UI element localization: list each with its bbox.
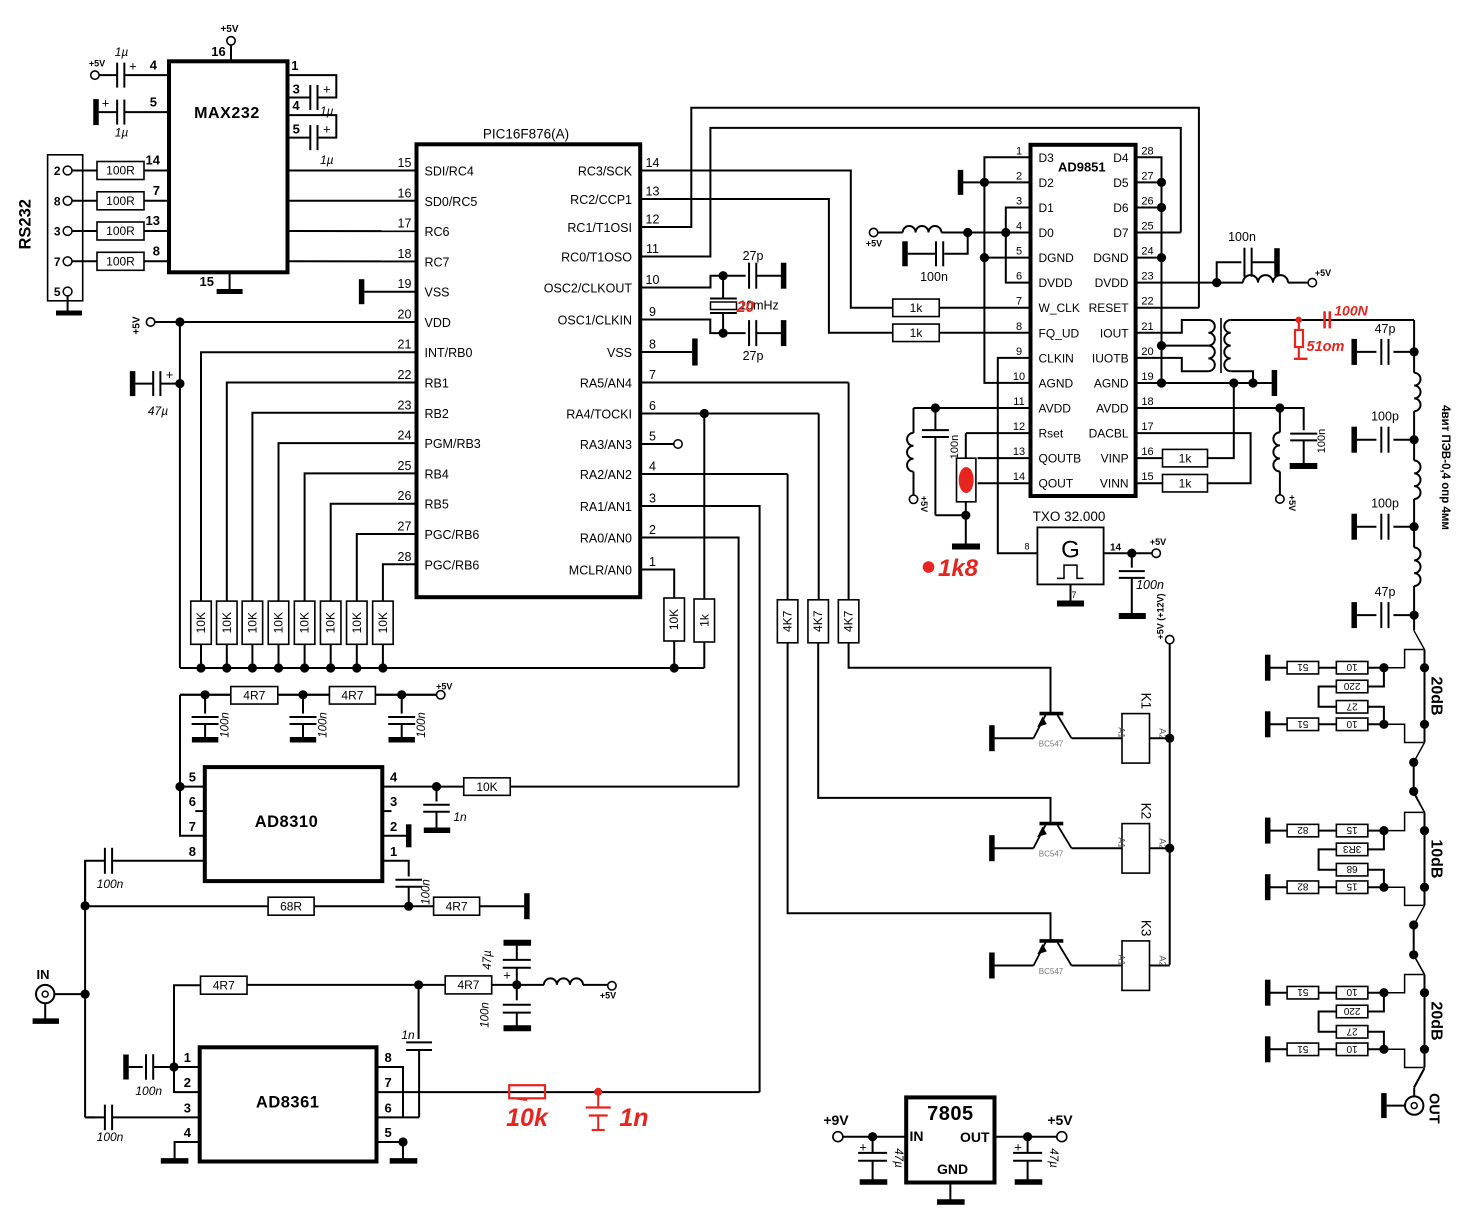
ground (AD8361 pin5): [402, 1142, 404, 1160]
node MCLR-bus junction: [670, 663, 679, 672]
svg-text:K1: K1: [1139, 693, 1154, 710]
IC AD8310 U6: [205, 767, 382, 881]
pin QOUT stub: [978, 482, 1031, 484]
attenuator 20dB input ground: [1265, 655, 1271, 681]
svg-text:26: 26: [398, 489, 412, 503]
wire PIC RC1/T1OSI to AD9851 RESET (top bus): [640, 108, 1199, 308]
attenuator 20dB series resistor 51 top: [1268, 667, 1287, 669]
svg-text:BC547: BC547: [1039, 740, 1064, 749]
wire PIC RA1/AN1 down to AD8361 out: [640, 506, 759, 1092]
resistor R22 4R7: [231, 687, 278, 705]
resistor R3 100R: [97, 222, 144, 240]
red annotation capacitor 1n: [597, 1092, 599, 1107]
capacitor C18 100n (supply): [302, 695, 304, 714]
node D0 filter junction: [963, 228, 972, 237]
svg-text:7: 7: [153, 183, 160, 198]
node attenuator 10dB top junction: [1379, 826, 1388, 835]
attenuator 20dB bypass bracket bottom: [1384, 1049, 1424, 1067]
capacitor C27 100n (pin3 input): [85, 1116, 95, 1118]
svg-text:51: 51: [1297, 661, 1309, 672]
capacitor C15 100p (LPF): [1393, 526, 1414, 528]
svg-text:1k8: 1k8: [938, 555, 979, 582]
svg-text:DACBL: DACBL: [1089, 427, 1129, 441]
svg-text:220: 220: [1343, 1005, 1360, 1016]
wire AVDD pin11: [914, 407, 1031, 409]
svg-text:RA5/AN4: RA5/AN4: [580, 377, 632, 391]
svg-text:DVDD: DVDD: [1039, 276, 1073, 290]
node AVDD junction: [931, 403, 940, 412]
svg-text:22: 22: [398, 368, 412, 382]
attenuator 20dB main line: [1424, 650, 1426, 743]
svg-text:4K7: 4K7: [781, 610, 795, 632]
svg-text:220: 220: [1343, 680, 1360, 691]
node DVDD junction: [1212, 278, 1221, 287]
resistor R28 4R7 (output filter): [445, 976, 492, 994]
capacitor C2 1u (MAX232 pin 5): [93, 99, 99, 125]
node 20dB line top: [1420, 663, 1429, 672]
svg-text:100n: 100n: [97, 877, 124, 891]
node IN junction: [81, 990, 90, 999]
wire resistor R4 to MAX232: [144, 260, 169, 262]
capacitor C26 100n (pin1): [123, 1055, 129, 1080]
node bus junction 2: [222, 663, 231, 672]
IC MAX232 U2: [169, 61, 288, 272]
svg-text:100n: 100n: [97, 1130, 124, 1144]
node D0 junction on bracket: [1001, 228, 1010, 237]
node supply row junction 1: [201, 690, 210, 699]
wire 4R7 to node: [247, 984, 421, 986]
resistor R27 4R7 (AD8361 supply): [201, 976, 248, 994]
attenuator 10dB bypass bracket bottom: [1384, 887, 1424, 905]
wire PIC RA2/AN2 to 4K7 (K3): [640, 473, 787, 475]
capacitor C4 1u (MAX232 pins 4-5): [288, 115, 337, 138]
svg-text:7: 7: [189, 819, 196, 834]
svg-text:FQ_UD: FQ_UD: [1039, 326, 1080, 340]
capacitor C13 47p (LPF): [1393, 351, 1414, 353]
svg-text:AD8361: AD8361: [256, 1093, 320, 1111]
attenuator 20dB main line: [1424, 975, 1426, 1068]
wire PIC RA5/AN4 to 4K7 (K1): [640, 382, 848, 384]
switch contact 20dB bottom: [1414, 1068, 1425, 1088]
svg-text:+: +: [166, 367, 174, 382]
node D6 junction: [1157, 203, 1166, 212]
svg-text:10: 10: [1013, 371, 1025, 383]
wire +5V to coil: [878, 232, 903, 234]
ground (RS232 pin 5): [67, 296, 69, 313]
ground (Q3 emitter): [989, 953, 995, 979]
inductor L2 (AVDD feed): [913, 408, 915, 433]
resistor R25 68R: [268, 897, 314, 915]
svg-text:8: 8: [189, 844, 196, 859]
node 20dB line bottom: [1420, 1045, 1429, 1054]
svg-text:7: 7: [649, 368, 656, 382]
svg-text:27: 27: [1141, 170, 1153, 182]
svg-text:IN: IN: [37, 967, 50, 982]
wire coil to D0: [941, 232, 1030, 234]
svg-text:27p: 27p: [743, 349, 764, 363]
svg-text:15: 15: [1346, 881, 1358, 892]
svg-text:10dB: 10dB: [1428, 839, 1445, 878]
attenuator 20dB shunt resistor 27: [1336, 1026, 1368, 1039]
attenuator 20dB series resistor 51 top: [1268, 992, 1287, 994]
svg-text:D1: D1: [1039, 201, 1055, 215]
svg-text:2: 2: [54, 164, 61, 178]
svg-text:4R7: 4R7: [446, 899, 468, 913]
svg-text:25: 25: [1141, 221, 1153, 233]
wire 10K to bus: [673, 641, 675, 668]
wire PIC pin 27 to pullup column 7: [357, 534, 417, 601]
svg-text:A1: A1: [1116, 837, 1126, 848]
power +5V terminal (DVDD): [1308, 278, 1316, 286]
svg-text:+: +: [503, 968, 511, 983]
capacitor C20 1n: [436, 787, 438, 802]
resistor R15 1k (W_CLK): [893, 299, 940, 317]
attenuator 10dB series resistor 15 bottom: [1319, 886, 1337, 888]
node DGND24 junction: [1157, 253, 1166, 262]
svg-text:4: 4: [649, 460, 656, 474]
wire TXO out to +5V: [1104, 552, 1152, 554]
svg-text:15: 15: [200, 274, 214, 289]
svg-text:AGND: AGND: [1094, 376, 1129, 390]
svg-text:8: 8: [649, 338, 656, 352]
svg-text:15: 15: [398, 156, 412, 170]
node pin5 junction: [377, 1141, 404, 1143]
wire MAX232 to PIC RC6: [288, 230, 417, 232]
wire LPF spine top: [1413, 320, 1415, 352]
svg-text:3: 3: [390, 794, 397, 809]
svg-text:16: 16: [1141, 446, 1153, 458]
wire PIC RC3/SCK to 1k W_CLK: [640, 171, 893, 308]
node D2 junction: [980, 178, 989, 187]
node crystal top junction: [719, 271, 728, 280]
svg-text:1k: 1k: [1179, 451, 1193, 465]
resistor R23 4R7: [329, 687, 375, 705]
node bus junction 5: [300, 663, 309, 672]
attenuator 10dB input ground: [1265, 818, 1271, 844]
capacitor C14 100p (LPF): [1393, 439, 1414, 441]
attenuator 10dB bypass bracket top: [1384, 812, 1424, 830]
node 10dB line bottom: [1420, 883, 1429, 892]
svg-text:4: 4: [150, 58, 158, 73]
svg-text:100n: 100n: [949, 435, 961, 459]
wire pin16 +5V to MAX232: [230, 45, 232, 61]
svg-text:+5V: +5V: [866, 239, 882, 249]
capacitor C16 47p (LPF): [1393, 614, 1414, 616]
svg-text:5: 5: [54, 285, 61, 299]
wire PIC pin 26 to pullup column 6: [331, 504, 417, 601]
switch to OUT link: [1414, 1069, 1424, 1088]
wire 4R7 to supply node: [492, 984, 517, 986]
wire coil to +5V: [1288, 282, 1308, 284]
wire AD8361 pin7 output: [377, 1091, 760, 1093]
capacitor C17 100n (supply): [204, 695, 206, 714]
wire +9V to 7805 IN: [843, 1136, 906, 1138]
wire AD8310 pin4 output: [382, 786, 464, 788]
ground (MAX232 pin 15): [229, 272, 231, 290]
svg-text:10: 10: [1346, 718, 1358, 729]
svg-text:OUT: OUT: [1426, 1093, 1442, 1124]
svg-text:RA2/AN2: RA2/AN2: [580, 468, 632, 482]
svg-text:QOUT: QOUT: [1039, 477, 1074, 491]
wire PIC OSC2 to crystal: [640, 276, 723, 288]
svg-text:3: 3: [1016, 195, 1022, 207]
svg-text:3: 3: [293, 82, 300, 97]
node 47u junction: [175, 379, 184, 388]
svg-text:10K: 10K: [376, 612, 390, 633]
svg-text:+5V: +5V: [1150, 537, 1166, 547]
IC 7805 U8: [906, 1097, 994, 1182]
ground (AD8361 pin4): [175, 1142, 200, 1160]
wire D2 to ground bar: [963, 181, 1031, 183]
svg-text:AD9851: AD9851: [1058, 160, 1106, 175]
svg-text:RB1: RB1: [425, 377, 449, 391]
attenuator 10dB output ground: [1265, 874, 1271, 900]
attenuator 10dB series resistor 15 top: [1319, 830, 1337, 832]
svg-text:IOUT: IOUT: [1100, 326, 1129, 340]
svg-text:+9V: +9V: [823, 1112, 849, 1128]
svg-text:6: 6: [189, 794, 196, 809]
resistor R18 1k (VINN): [1136, 482, 1163, 484]
resistor R7 10K pullup: [242, 601, 263, 644]
transformer TR1 secondary: [1224, 320, 1230, 371]
IC PIC16F876(A) U3: [417, 144, 641, 597]
svg-text:1: 1: [1016, 145, 1022, 157]
svg-text:10: 10: [1346, 1043, 1358, 1054]
node LPF junction 3: [1410, 522, 1419, 531]
svg-text:3: 3: [649, 492, 656, 506]
resistor R24 10K: [464, 778, 511, 796]
node VDD junction: [175, 317, 184, 326]
svg-text:51: 51: [1297, 986, 1309, 997]
wire AVDD pin18: [1136, 407, 1280, 409]
svg-text:RC2/CCP1: RC2/CCP1: [570, 193, 632, 207]
svg-text:BC547: BC547: [1039, 967, 1064, 976]
svg-text:5: 5: [649, 430, 656, 444]
svg-text:1: 1: [649, 555, 656, 569]
svg-text:47µ: 47µ: [482, 950, 494, 970]
svg-text:PGC/RB6: PGC/RB6: [425, 528, 480, 542]
resistor R20 4K7 (K2): [808, 600, 829, 643]
attenuator 10dB series resistor 82 bottom: [1268, 886, 1287, 888]
svg-text:7: 7: [1071, 590, 1076, 600]
svg-text:10: 10: [1346, 986, 1358, 997]
IC AD8361 U7: [200, 1047, 377, 1161]
RS232 pin 2 pad: [63, 166, 72, 175]
attenuator 20dB series resistor 51 bottom: [1268, 1048, 1287, 1050]
svg-text:5: 5: [293, 122, 300, 137]
wire DACBL to VINN 1k: [1136, 433, 1251, 483]
svg-text:+5V: +5V: [1315, 268, 1331, 278]
resistor R14 1k (RA4): [703, 414, 705, 600]
svg-text:10K: 10K: [667, 609, 681, 630]
resistor R21 4K7 (K1): [838, 600, 859, 643]
node output cap junction: [1023, 1132, 1032, 1141]
svg-text:Rset: Rset: [1039, 427, 1064, 441]
switch contact 10dB top: [1414, 793, 1425, 812]
svg-text:28: 28: [1141, 145, 1153, 157]
RS232 pin 7 pad: [63, 257, 72, 266]
svg-text:47p: 47p: [1375, 585, 1396, 599]
wire 4K7 K2 to transistor Q2 base: [818, 414, 820, 600]
ground (AD9851 AGND): [1272, 370, 1278, 396]
svg-text:27: 27: [1346, 1025, 1358, 1036]
svg-text:D5: D5: [1113, 176, 1129, 190]
wire relay K1 to +12V rail: [1150, 737, 1170, 739]
node pin4 junction: [432, 782, 441, 791]
node attenuator 20dB top junction: [1379, 663, 1388, 672]
svg-text:K3: K3: [1139, 920, 1154, 937]
wire relay K2 to +12V rail: [1150, 847, 1170, 849]
inductor L3 (DVDD): [1243, 275, 1288, 282]
svg-text:1: 1: [184, 1050, 191, 1065]
transformer TR1 primary: [1136, 320, 1209, 333]
node center tap junction: [1157, 341, 1166, 350]
svg-text:GND: GND: [937, 1161, 968, 1177]
resistor R9 10K pullup: [294, 601, 315, 644]
resistor R10 10K pullup: [320, 601, 341, 644]
svg-text:82: 82: [1297, 881, 1309, 892]
ground (PIC pin 19 VSS): [364, 291, 416, 293]
svg-text:22: 22: [1141, 296, 1153, 308]
svg-text:100p: 100p: [1371, 410, 1399, 424]
svg-text:+: +: [129, 58, 137, 73]
svg-text:100N: 100N: [1334, 303, 1368, 319]
wire PIC RC0/T1OSO to AD9851 D7 (second bus): [640, 128, 1181, 257]
svg-text:D2: D2: [1039, 176, 1055, 190]
svg-text:100n: 100n: [421, 879, 433, 905]
svg-text:AGND: AGND: [1039, 376, 1074, 390]
svg-text:CLKIN: CLKIN: [1039, 351, 1074, 365]
inductor L7 (LPF): [1413, 527, 1415, 548]
switch contact 20dB bottom: [1414, 743, 1425, 763]
connector IN: [36, 985, 54, 1003]
svg-text:VINN: VINN: [1100, 477, 1129, 491]
wire D6 stub: [1136, 206, 1162, 208]
capacitor C21 100n (pin1): [382, 861, 408, 877]
svg-text:MAX232: MAX232: [194, 105, 260, 122]
svg-text:2: 2: [390, 819, 397, 834]
svg-text:100n: 100n: [220, 712, 232, 738]
power +5V terminal (AD9851 D0 rail): [869, 228, 877, 236]
attenuator 20dB series resistor 51 bottom: [1268, 723, 1287, 725]
ground (PIC pin 8 VSS): [640, 351, 692, 353]
svg-text:17: 17: [398, 217, 412, 231]
svg-text:20: 20: [1141, 346, 1153, 358]
svg-text:18: 18: [398, 247, 412, 261]
svg-text:47µ: 47µ: [892, 1148, 904, 1168]
wire VDD rail down to pullup bus: [179, 322, 181, 668]
ground (AD8310 pin2): [382, 835, 406, 837]
svg-text:+5V (+12V): +5V (+12V): [1156, 593, 1166, 639]
svg-text:RC7: RC7: [425, 255, 450, 269]
svg-text:10K: 10K: [194, 612, 208, 633]
attenuator 20dB shunt resistor 220: [1336, 1005, 1368, 1018]
svg-text:+: +: [323, 121, 331, 136]
wire PIC RC2/CCP1 to 1k FQ_UD: [640, 199, 893, 333]
resistor R6 10K pullup: [217, 601, 238, 644]
svg-text:12: 12: [646, 213, 660, 227]
switch contact 20dB top: [1414, 955, 1425, 974]
svg-text:9: 9: [649, 305, 656, 319]
relay K1 coil: [1122, 714, 1150, 764]
svg-text:68: 68: [1346, 863, 1358, 874]
node bus junction 3: [248, 663, 257, 672]
node supply row junction 2: [298, 690, 307, 699]
svg-text:AD8310: AD8310: [255, 813, 319, 831]
wire D4/D5/D6/DGND vertical net: [1136, 157, 1162, 383]
pin QOUTB stub: [978, 457, 1031, 459]
wire IN to node: [54, 993, 85, 995]
svg-text:D7: D7: [1113, 226, 1129, 240]
svg-text:6: 6: [1016, 271, 1022, 283]
wire Q1 emitter to ground: [995, 737, 1034, 739]
power +5V terminal (TXO): [1152, 549, 1160, 557]
RS232 pin 3 pad: [63, 227, 72, 236]
wire pullup 6 to bus: [330, 644, 332, 668]
wire VINP 1k to AGND: [1207, 383, 1233, 458]
transistor Q3 BC547: [1040, 939, 1064, 943]
wire PIC pin 22 to pullup column 2: [227, 383, 417, 602]
wire supply to AD8310 pin5/7: [180, 695, 205, 836]
svg-text:14: 14: [1013, 471, 1025, 483]
red annotation 1k8: [923, 561, 935, 573]
node 1n junction: [414, 980, 423, 989]
red annotation resistor 51om: [1295, 317, 1301, 323]
attenuator 10dB series resistor 82 top: [1268, 830, 1287, 832]
node attenuator 20dB top junction: [1379, 988, 1388, 997]
svg-text:4R7: 4R7: [341, 689, 363, 703]
svg-text:A1: A1: [1116, 727, 1126, 738]
svg-text:1: 1: [291, 58, 298, 73]
svg-text:9: 9: [1016, 346, 1022, 358]
resistor R5 10K pullup: [191, 601, 212, 644]
node bus junction 4: [274, 663, 283, 672]
svg-text:RC0/T1OSO: RC0/T1OSO: [561, 251, 632, 265]
svg-text:11: 11: [646, 242, 659, 256]
ground (Rset): [965, 515, 967, 545]
svg-text:15: 15: [1346, 824, 1358, 835]
svg-text:1: 1: [390, 844, 397, 859]
attenuator 20dB output ground: [1265, 1036, 1271, 1062]
resistor R16 1k (FQ_UD): [893, 324, 940, 342]
attenuator 20dB shunt resistor 27: [1336, 701, 1368, 714]
svg-text:+5V: +5V: [1287, 495, 1297, 511]
wire resistor R2 to MAX232: [144, 200, 169, 202]
svg-text:PGC/RB6: PGC/RB6: [425, 558, 480, 572]
wire pin6 to 1n: [377, 1116, 420, 1118]
svg-text:10K: 10K: [272, 612, 286, 633]
svg-text:5: 5: [1016, 246, 1022, 258]
capacitor C19 100n (supply): [401, 695, 403, 714]
svg-text:18: 18: [1141, 396, 1153, 408]
svg-text:INT/RB0: INT/RB0: [425, 346, 473, 360]
ground (AD9851 D2): [958, 170, 964, 195]
svg-text:1k: 1k: [910, 326, 924, 340]
svg-text:RC1/T1OSI: RC1/T1OSI: [567, 221, 632, 235]
node 68R junction: [81, 901, 90, 910]
node attenuator 20dB bottom junction: [1379, 720, 1388, 729]
wire supply row to AD8310: [180, 694, 436, 696]
attenuator 20dB bypass bracket top: [1384, 975, 1424, 993]
svg-text:20dB: 20dB: [1428, 1001, 1445, 1040]
svg-text:+: +: [859, 1140, 867, 1155]
node DGND junction: [980, 253, 989, 262]
switch contact 20dB top: [1414, 630, 1425, 649]
node AGND junction2: [1229, 378, 1238, 387]
svg-text:20dB: 20dB: [1428, 676, 1445, 715]
svg-text:25: 25: [398, 459, 412, 473]
node K2 rail junction: [1165, 844, 1174, 853]
